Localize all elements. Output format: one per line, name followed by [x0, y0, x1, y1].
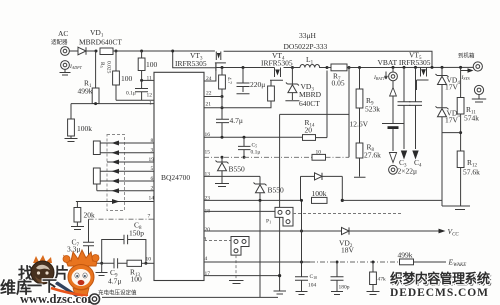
svg-text:574k: 574k	[464, 114, 479, 123]
transistor VT5	[417, 67, 429, 90]
connector J6 chassis gnd	[472, 85, 486, 102]
resistor pullup b	[93, 168, 100, 184]
pin 15 dashdot line	[204, 150, 349, 158]
svg-text:20k: 20k	[84, 211, 96, 220]
node pin21 cross	[221, 106, 224, 109]
wire y114 link	[280, 113, 349, 115]
capacitor C 4.7u at pin21 col	[216, 97, 243, 138]
label VT5 VBAT IRFR5305	[378, 51, 431, 68]
pin 7 line dashdot	[89, 214, 155, 220]
connector J5 system	[473, 62, 482, 71]
transistor VT3	[215, 52, 226, 72]
label VT4 IRFR5305	[261, 51, 293, 68]
zener VD4 17V	[436, 67, 461, 107]
connector J3 battery +	[373, 67, 397, 81]
svg-text:4.7: 4.7	[226, 77, 232, 84]
svg-text:104: 104	[308, 283, 317, 289]
resistor R13 100	[127, 260, 154, 283]
wire pin15 col up	[348, 68, 350, 158]
pin 12	[116, 93, 154, 101]
svg-text:10: 10	[146, 257, 152, 263]
svg-text:0.1μ: 0.1μ	[251, 150, 261, 156]
diode VD3	[285, 68, 299, 101]
pin 4 wire	[204, 256, 398, 264]
svg-text:IRFR5305: IRFR5305	[261, 59, 293, 68]
wire R14 col	[326, 71, 328, 138]
svg-text:P1: P1	[266, 219, 271, 225]
transistor VT4	[270, 68, 283, 81]
node adapter drop	[171, 50, 174, 53]
node rail R4	[221, 66, 224, 69]
ground loop	[96, 263, 108, 275]
wire system rail y67.5	[216, 67, 300, 69]
svg-text:47k: 47k	[378, 277, 387, 283]
resistor 100 b	[113, 51, 133, 100]
node 100 r1 top	[140, 50, 143, 53]
svg-text:499k: 499k	[398, 251, 413, 260]
watermark dzsc group	[0, 250, 100, 305]
zener VD8 B550	[254, 176, 285, 297]
node R11 R12 junction	[459, 131, 462, 134]
svg-text:10: 10	[316, 150, 322, 156]
node A adapter	[95, 50, 98, 53]
svg-text:2×22μ: 2×22μ	[398, 167, 418, 176]
svg-text:150p: 150p	[129, 229, 144, 238]
pin 14 line	[76, 196, 154, 205]
svg-text:640CT: 640CT	[299, 99, 320, 108]
svg-text:AC: AC	[58, 29, 68, 38]
svg-text:织梦内容管理系统: 织梦内容管理系统	[390, 270, 490, 286]
svg-text:57.6k: 57.6k	[463, 168, 480, 177]
wire col 301 link	[301, 200, 303, 262]
capacitor C7 3.3u	[67, 219, 94, 263]
pin 19 line	[107, 157, 154, 165]
arrow Isys	[461, 68, 474, 81]
svg-text:4: 4	[205, 256, 208, 262]
wire pin22	[204, 96, 222, 98]
pin 1	[71, 101, 154, 107]
pin 11	[140, 76, 154, 82]
svg-text:适配器: 适配器	[51, 38, 68, 46]
svg-text:523k: 523k	[365, 105, 380, 114]
svg-text:B550: B550	[229, 165, 246, 174]
node pin22	[221, 95, 224, 98]
resistor R7	[331, 64, 347, 88]
watermark dedecms group	[390, 270, 492, 299]
ground zener R12	[442, 206, 470, 210]
zener VD5 17V	[436, 106, 461, 206]
node battery top	[392, 66, 395, 69]
svg-text:IBATT: IBATT	[373, 75, 386, 81]
pin 6 line	[97, 176, 154, 184]
pin 5 line	[97, 166, 154, 174]
svg-text:DO5022P-333: DO5022P-333	[284, 42, 328, 51]
resistor R12 57.6k	[457, 151, 480, 206]
svg-text:C10: C10	[310, 274, 318, 280]
pin 8 line	[97, 138, 154, 146]
capacitor C10 104	[295, 262, 317, 295]
resistor R9 523k	[356, 68, 380, 114]
resistor 10 on pin15 line	[312, 150, 326, 161]
resistor 100k loop	[312, 189, 443, 203]
svg-text:ISYS: ISYS	[461, 75, 470, 81]
capacitor C8 150p loop	[102, 221, 146, 264]
svg-text:IADPT: IADPT	[69, 64, 83, 70]
node B	[115, 50, 118, 53]
wire top rail to VT3	[113, 50, 215, 52]
resistor R11 574k	[457, 67, 479, 151]
svg-text:17V: 17V	[445, 83, 459, 92]
svg-text:220μ: 220μ	[250, 80, 265, 89]
dashed line from P1	[293, 213, 403, 215]
svg-text:VBAT IRFR5305: VBAT IRFR5305	[378, 58, 431, 67]
label VD3 MBRD 640CT	[299, 82, 322, 108]
wire Vcc arrow	[349, 227, 459, 238]
resistor R1 499k	[78, 51, 100, 105]
svg-text:100k: 100k	[312, 189, 327, 198]
svg-text:4.7μ: 4.7μ	[108, 277, 121, 286]
node zener col	[441, 66, 444, 69]
resistor R8 27.6k	[354, 108, 381, 177]
diode VD2 18V	[339, 227, 355, 254]
svg-text:B550: B550	[268, 186, 285, 195]
label VT3 IRFR5305	[175, 51, 207, 68]
svg-text:100: 100	[146, 60, 158, 69]
svg-text:15: 15	[205, 150, 211, 156]
svg-text:到机箱: 到机箱	[458, 52, 475, 60]
svg-text:MBRD640CT: MBRD640CT	[79, 38, 122, 47]
label VD1 MBRD640CT	[79, 28, 122, 47]
capacitor C9 4.7u	[89, 258, 128, 285]
svg-text:27.6k: 27.6k	[364, 151, 381, 160]
wire junction to zener col	[442, 132, 461, 134]
svg-text:100: 100	[121, 74, 133, 83]
svg-text:0.025: 0.025	[106, 61, 112, 74]
svg-text:100k: 100k	[77, 124, 92, 133]
wire long gate line to right	[224, 51, 432, 67]
label 33uH DO5022P-333	[284, 31, 328, 51]
wire col 279	[279, 114, 281, 291]
wm registered circle	[90, 294, 100, 304]
node cap C4 top	[414, 66, 417, 69]
pin 20 wire	[204, 227, 342, 233]
svg-text:MBRD: MBRD	[299, 90, 322, 99]
node R11 top	[459, 66, 462, 69]
resistor 20k	[71, 202, 95, 230]
arrow down battery	[389, 153, 396, 163]
wire pullup b tail	[96, 184, 98, 191]
node gate line join	[431, 66, 434, 69]
pin 9 dashed wire	[204, 237, 232, 243]
jumper P2	[231, 237, 249, 256]
node loop right	[144, 262, 147, 265]
jumper P1	[266, 207, 293, 226]
resistor R4 gate 4.7	[219, 68, 232, 97]
node R7 out	[348, 66, 351, 69]
node L1 out	[326, 66, 329, 69]
svg-text:12: 12	[147, 93, 153, 99]
svg-text:C5: C5	[252, 143, 258, 149]
resistor R14 20	[303, 118, 328, 140]
bottom wire	[102, 296, 278, 298]
pin 16 wire	[204, 132, 303, 139]
svg-text:180p: 180p	[339, 285, 350, 291]
resistor VT4 gate	[268, 86, 275, 101]
capacitor C4 22u	[409, 67, 422, 159]
svg-text:499k: 499k	[78, 87, 93, 96]
svg-text:0.05: 0.05	[332, 79, 345, 88]
resistor 499k wake	[398, 251, 467, 269]
wm orange mascot	[63, 250, 99, 298]
resistor R5 shunt	[99, 48, 113, 74]
svg-text:33μH: 33μH	[299, 31, 317, 40]
resistor 100 a	[138, 51, 157, 80]
wire adapter drop 172	[173, 51, 216, 68]
node loop left	[100, 262, 103, 265]
node R14 col	[326, 66, 328, 68]
svg-text:20: 20	[205, 227, 211, 233]
svg-text:7: 7	[148, 214, 151, 220]
capacitor C3 22u	[398, 67, 411, 159]
inductor L1	[300, 55, 327, 68]
svg-text:www.dzsc.com: www.dzsc.com	[20, 292, 98, 305]
pin 24 gate VT3	[204, 63, 216, 82]
node cap C3 top	[403, 66, 406, 69]
pin 2 line	[97, 186, 154, 194]
svg-text:4.7μ: 4.7μ	[230, 116, 243, 125]
wm dark ball	[31, 255, 54, 284]
dashed box control	[107, 135, 125, 211]
svg-text:R5: R5	[99, 62, 105, 68]
pin 17 wire	[204, 271, 281, 277]
node col301 pin23	[300, 199, 303, 202]
wm swoosh	[51, 288, 88, 296]
svg-text:12.6V: 12.6V	[350, 120, 369, 129]
wire switch rail	[284, 67, 301, 69]
current arrow up	[390, 81, 397, 97]
svg-text:21: 21	[206, 102, 212, 108]
wire pin21 to VT4 gate	[204, 101, 271, 108]
AC adapter label	[51, 29, 68, 46]
svg-text:IRFR5305: IRFR5305	[175, 59, 207, 68]
IC U1 BQ24700	[154, 72, 204, 280]
connector J1 AC+	[61, 47, 70, 56]
pin 18 wire	[204, 209, 275, 215]
svg-text:BQ24700: BQ24700	[161, 173, 190, 182]
svg-text:9: 9	[204, 237, 207, 243]
capacitor C2 220u	[237, 68, 266, 94]
pin 3 line	[97, 148, 154, 156]
connector J4 battery -	[389, 165, 398, 174]
connector J2 AC-	[61, 61, 83, 70]
node R9 top	[358, 66, 361, 69]
zener VD6 B550	[215, 156, 245, 187]
svg-text:充电电压设定值: 充电电压设定值	[98, 289, 137, 297]
resistor 47k wake	[367, 262, 387, 295]
svg-text:17V: 17V	[445, 116, 459, 125]
svg-text:20: 20	[305, 126, 313, 135]
wm pen stroke	[55, 281, 81, 299]
pin 13 wire	[204, 172, 260, 178]
ground below J2	[60, 69, 71, 75]
svg-text:22: 22	[206, 91, 212, 97]
resistor 100k left	[65, 104, 93, 142]
label C3 C4 2x22u	[398, 158, 423, 176]
svg-text:DEDECMS.COM: DEDECMS.COM	[390, 287, 488, 299]
pin 23 wire	[204, 196, 301, 202]
diode VD1	[69, 47, 96, 55]
resistor pullup a	[93, 141, 100, 155]
dashed gnd from P2	[229, 255, 244, 283]
svg-text:18V: 18V	[341, 246, 355, 255]
svg-text:0.1μ: 0.1μ	[126, 91, 136, 97]
svg-text:100: 100	[131, 275, 143, 284]
diode 100k loop	[301, 173, 343, 201]
svg-text:14: 14	[149, 196, 155, 202]
battery 12.6V	[350, 97, 405, 151]
capacitor 0.1u pin12	[126, 80, 148, 100]
wm weiku text	[0, 278, 57, 297]
capacitor 180p	[331, 262, 350, 295]
ground col 279	[274, 291, 287, 294]
capacitor C5 0.1u	[238, 137, 260, 159]
node switch	[291, 66, 294, 69]
node rail C220	[242, 66, 245, 69]
wire VT4 gate link	[270, 80, 272, 86]
wire rail R7 to VT5	[327, 66, 473, 68]
